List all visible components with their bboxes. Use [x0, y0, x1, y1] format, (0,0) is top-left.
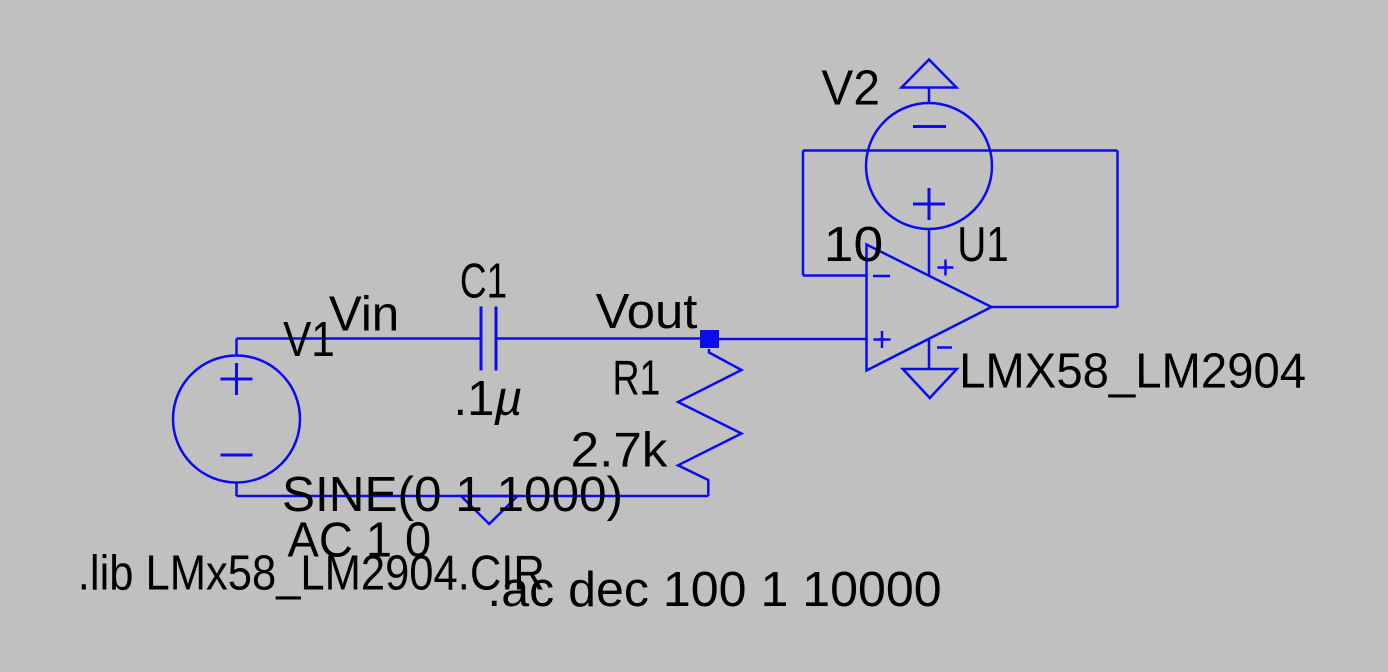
op-amp U1 V- power pin marker	[937, 346, 952, 349]
wire V2 top lead	[928, 88, 931, 104]
wire op-amp V- pin to ground	[928, 339, 931, 370]
wire V1 bottom lead	[235, 483, 238, 497]
svg-text:C1: C1	[460, 254, 507, 308]
wire to op-amp inverting input	[803, 274, 867, 277]
svg-text:V2: V2	[821, 62, 880, 116]
voltage source V2 circle	[866, 103, 992, 229]
capacitor C1 left plate	[480, 307, 483, 371]
voltage source V2 minus sign	[913, 125, 946, 128]
op-amp U1 non-inverting input marker	[874, 331, 891, 348]
wire Vin: V1 to C1	[237, 337, 482, 340]
svg-text:V1: V1	[283, 313, 335, 367]
svg-text:.1µ: .1µ	[454, 372, 523, 426]
voltage source V2 plus sign	[913, 188, 945, 220]
svg-text:R1: R1	[613, 352, 661, 406]
op-amp U1 V+ power pin marker	[938, 260, 954, 276]
wire Vout junction to op-amp + input	[719, 338, 867, 341]
wire op-amp output	[992, 306, 1118, 309]
voltage source V1 circle	[173, 356, 300, 483]
op-amp U1 triangle	[867, 245, 992, 371]
op-amp U1 inverting input marker	[873, 275, 890, 278]
wire feedback top horizontal	[803, 149, 1118, 152]
capacitor C1 right plate	[495, 307, 498, 371]
svg-text:Vout: Vout	[596, 285, 698, 339]
voltage source V1 plus sign	[221, 363, 253, 395]
ground symbol on bottom wire	[461, 496, 518, 524]
voltage source V1 minus sign	[221, 454, 253, 457]
svg-text:.ac dec 100 1 10000: .ac dec 100 1 10000	[487, 563, 941, 617]
svg-text:U1: U1	[957, 218, 1009, 272]
wire feedback left vertical	[802, 151, 805, 276]
power flag above V2	[902, 60, 957, 88]
svg-text:LMX58_LM2904: LMX58_LM2904	[959, 344, 1306, 398]
wire C1 to Vout junction	[496, 337, 700, 340]
wire bottom return	[237, 495, 709, 498]
ground symbol under op-amp	[903, 369, 957, 398]
svg-text:10: 10	[824, 218, 883, 272]
wire V1 top lead	[235, 339, 238, 356]
svg-text:.lib LMx58_LM2904.CIR: .lib LMx58_LM2904.CIR	[78, 547, 545, 601]
node Vout junction square	[700, 330, 719, 348]
resistor R1 zigzag	[678, 349, 742, 496]
wire feedback right vertical	[1116, 151, 1119, 308]
wire V2 bottom to op-amp V+ pin	[928, 229, 931, 276]
svg-text:Vin: Vin	[329, 287, 399, 341]
